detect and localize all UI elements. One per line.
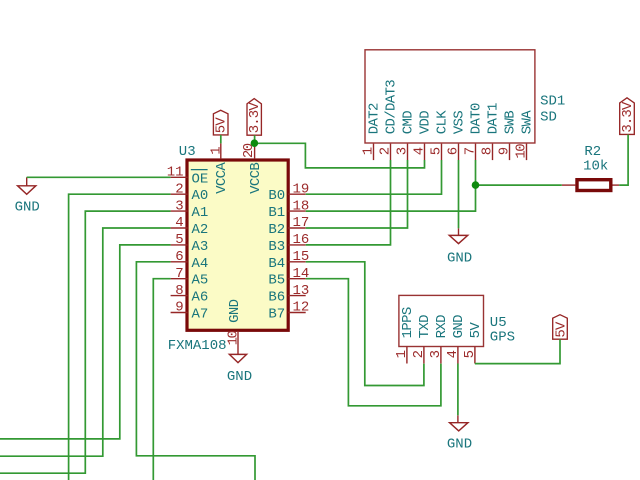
svg-text:VCCB: VCCB [248, 163, 264, 194]
wire B5 to RXD [306, 279, 441, 406]
svg-text:SD: SD [540, 109, 557, 125]
pin stub SD1 pin 1 (DAT2) [373, 144, 375, 161]
pin stub U3 pin 14 (B5) [288, 278, 306, 280]
pin stub U5 pin 4 (GND) [457, 347, 459, 364]
svg-text:U3: U3 [179, 144, 196, 160]
pin stub SD1 pin 8 (DAT1) [492, 144, 494, 161]
svg-text:DAT2: DAT2 [367, 103, 383, 134]
pin stub SD1 pin 9 (SWB) [509, 144, 511, 161]
pin stub SD1 pin 5 (CLK) [441, 144, 443, 161]
supply symbol 5V above U3 pin1 [213, 110, 228, 135]
svg-text:SD1: SD1 [540, 94, 565, 110]
wire 3.3V to VCCB [254, 135, 256, 143]
svg-text:B0: B0 [268, 188, 285, 204]
svg-text:VSS: VSS [452, 111, 468, 135]
svg-text:FXMA108: FXMA108 [168, 338, 227, 354]
svg-text:DAT1: DAT1 [486, 103, 502, 134]
pin stub U3 pin 20 (VCCB) [254, 143, 256, 159]
svg-text:5: 5 [429, 147, 445, 155]
ground symbol under U3 [229, 354, 246, 362]
pin stub U3 pin 17 (B2) [288, 227, 306, 229]
svg-text:A3: A3 [192, 239, 209, 255]
svg-text:2: 2 [175, 181, 183, 197]
svg-text:VCCA: VCCA [214, 162, 230, 194]
svg-text:A7: A7 [192, 307, 209, 323]
wire A1 net [0, 211, 171, 473]
svg-text:DAT0: DAT0 [469, 103, 485, 134]
pin stub U3 pin 15 (B4) [288, 261, 306, 263]
svg-text:5V: 5V [468, 322, 484, 339]
svg-text:10: 10 [514, 144, 530, 159]
pin stub SD1 pin 4 (VDD) [424, 144, 426, 161]
svg-text:3: 3 [395, 147, 411, 155]
svg-text:B2: B2 [268, 222, 285, 238]
svg-text:7: 7 [175, 266, 183, 282]
svg-text:7: 7 [463, 147, 479, 155]
svg-text:1: 1 [208, 147, 224, 155]
pin stub U3 pin 19 (B0) [288, 193, 306, 195]
pin stub U3 pin 16 (B3) [288, 244, 306, 246]
svg-text:GND: GND [227, 369, 252, 385]
ground symbol under SD1 VSS [458, 228, 460, 235]
pin stub U3 pin 1 (VCCA) [220, 143, 222, 159]
svg-text:TXD: TXD [417, 315, 433, 339]
connector SD1 box [365, 50, 535, 143]
pin stub U5 pin 3 (RXD) [440, 347, 442, 364]
svg-text:A2: A2 [192, 222, 209, 238]
pin stub SD1 pin 6 (VSS) [458, 144, 460, 161]
svg-text:A0: A0 [192, 188, 209, 204]
wire U5 GND to ground [457, 364, 459, 416]
svg-text:6: 6 [175, 249, 183, 265]
connector U5 box [399, 295, 484, 346]
pin stub U3 pin 5 (A3) [171, 244, 188, 246]
svg-text:B3: B3 [268, 239, 285, 255]
svg-text:8: 8 [480, 147, 496, 155]
resistor R2 left lead [562, 184, 576, 186]
svg-text:GND: GND [447, 250, 472, 266]
svg-text:GND: GND [227, 299, 243, 323]
svg-text:CD/DAT3: CD/DAT3 [384, 80, 400, 135]
wire A3 net [0, 245, 171, 439]
svg-text:B5: B5 [268, 273, 285, 289]
pin stub U3 pin 2 (A0) [171, 193, 188, 195]
wire A2 net [0, 228, 171, 456]
svg-text:B7: B7 [268, 307, 285, 323]
svg-text:4: 4 [412, 147, 428, 155]
supply symbol 3.3V above U3 pin20 [247, 99, 261, 136]
svg-text:GND: GND [447, 437, 472, 453]
pin stub U3 pin 11 (OE) [171, 176, 188, 178]
svg-text:VDD: VDD [418, 111, 434, 135]
svg-text:A5: A5 [192, 273, 209, 289]
overline for OE [191, 169, 208, 171]
wire B1 to DAT0 [306, 160, 476, 211]
IC U3 body (FXMA108 level shifter) [187, 160, 288, 330]
svg-text:5V: 5V [214, 117, 230, 134]
wire U5 5V to flag [475, 339, 560, 363]
pin stub U3 pin 7 (A5) [171, 278, 188, 280]
pin stub U5 pin 1 (1PPS) [406, 347, 408, 364]
resistor R2 body [577, 180, 611, 191]
junction node VCCB/3.3V [251, 139, 259, 147]
svg-text:B1: B1 [268, 205, 285, 221]
svg-text:10: 10 [226, 331, 242, 346]
pin stub SD1 pin 10 (SWA) [526, 144, 528, 161]
svg-text:2: 2 [411, 350, 427, 358]
svg-text:A4: A4 [192, 256, 209, 272]
svg-text:CMD: CMD [401, 111, 417, 135]
wire A0 net [69, 194, 171, 480]
svg-text:13: 13 [293, 283, 310, 299]
svg-text:SWB: SWB [503, 111, 519, 135]
svg-text:B4: B4 [268, 256, 285, 272]
pin stub U3 pin 3 (A1) [171, 210, 188, 212]
svg-text:OE: OE [192, 171, 209, 187]
svg-text:4: 4 [175, 215, 183, 231]
pin stub U3 pin 4 (A2) [171, 227, 188, 229]
svg-text:5V: 5V [553, 321, 569, 338]
wire 5V to VCCA [220, 135, 222, 144]
svg-text:9: 9 [497, 147, 513, 155]
wire B2 to CMD [306, 160, 408, 228]
wire VSS to GND [458, 160, 460, 228]
svg-text:GND: GND [15, 199, 40, 215]
pin stub U3 pin 10 (GND) [237, 331, 239, 354]
wire OE to GND [27, 176, 171, 178]
wire B4 to TXD [306, 262, 424, 386]
pin stub U3 pin 9 (A7) [171, 312, 188, 314]
junction node DAT0/R2 [472, 181, 480, 189]
pin stub SD1 pin 7 (DAT0) [475, 144, 477, 161]
svg-text:3: 3 [175, 198, 183, 214]
wire R2 to 3.3V flag [619, 135, 628, 186]
svg-text:6: 6 [446, 147, 462, 155]
pin stub U3 pin 6 (A4) [171, 261, 188, 263]
ground symbol left (OE net) [26, 177, 28, 186]
supply symbol 3.3V right of R2 [620, 98, 635, 135]
svg-text:1: 1 [361, 147, 377, 155]
svg-text:8: 8 [175, 283, 183, 299]
svg-text:GND: GND [451, 315, 467, 339]
ground symbol under U5 [457, 415, 459, 422]
svg-text:5: 5 [175, 232, 183, 248]
pin stub U3 pin 18 (B1) [288, 210, 306, 212]
resistor R2 right lead [613, 184, 620, 186]
svg-text:A6: A6 [192, 290, 209, 306]
svg-text:5: 5 [462, 350, 478, 358]
svg-text:RXD: RXD [434, 315, 450, 339]
pin stub U3 pin 12 (B7) [288, 312, 306, 314]
wire A5 net [153, 279, 170, 480]
svg-text:CLK: CLK [435, 110, 451, 135]
svg-text:10k: 10k [583, 159, 608, 175]
pin stub U5 pin 2 (TXD) [423, 347, 425, 364]
svg-text:A1: A1 [192, 205, 209, 221]
svg-text:2: 2 [378, 147, 394, 155]
wire 3.3V to SD1 VDD [255, 143, 425, 168]
pin stub U3 pin 13 (B6) [288, 295, 306, 297]
pin stub U5 pin 5 (5V) [474, 347, 476, 364]
svg-text:1PPS: 1PPS [400, 307, 416, 338]
svg-text:GPS: GPS [490, 329, 515, 345]
svg-text:12: 12 [293, 300, 310, 316]
svg-text:3: 3 [428, 350, 444, 358]
wire A4 net [136, 262, 255, 480]
svg-text:B6: B6 [268, 290, 285, 306]
svg-text:SWA: SWA [520, 110, 536, 135]
wire B0 to CLK [306, 160, 442, 194]
svg-text:4: 4 [445, 350, 461, 358]
pin stub SD1 pin 2 (CD/DAT3) [390, 144, 392, 161]
wire DAT0 to R2 [476, 184, 562, 186]
svg-text:3.3V: 3.3V [620, 101, 636, 133]
svg-text:1: 1 [394, 350, 410, 358]
wire B3 to CD/DAT3 [306, 160, 391, 245]
pin stub SD1 pin 3 (CMD) [407, 144, 409, 161]
supply symbol 5V right of U5 [553, 315, 568, 340]
svg-text:9: 9 [175, 300, 183, 316]
svg-text:3.3V: 3.3V [247, 102, 263, 134]
pin stub U3 pin 8 (A6) [171, 295, 188, 297]
